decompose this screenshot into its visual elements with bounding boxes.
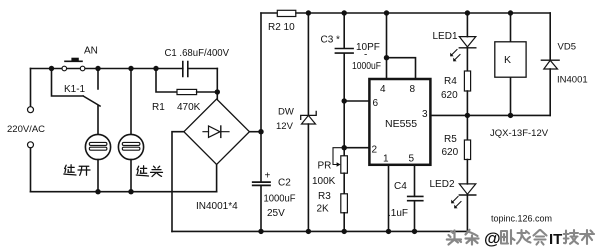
svg-text:DW: DW	[278, 107, 294, 118]
junction pin1 bottom	[386, 229, 391, 234]
glyph 会	[534, 230, 547, 245]
junction lamp2 bottom	[128, 189, 133, 194]
junction relay top	[508, 10, 513, 15]
relay K	[510, 13, 512, 115]
label 延开	[64, 165, 90, 176]
svg-text:C1 .68uF/400V: C1 .68uF/400V	[165, 48, 230, 59]
node AC terminal bottom	[28, 142, 34, 148]
wire bottom DC rail	[172, 230, 467, 232]
svg-text:R1: R1	[152, 102, 165, 113]
junction pin6	[342, 98, 347, 103]
junction C2 bottom	[258, 229, 263, 234]
junction pin3/R4	[465, 113, 470, 118]
wire AC2 branch to bridge left vertex	[172, 132, 184, 232]
arrows LED1	[451, 50, 460, 61]
wire neutral rail	[31, 191, 217, 193]
op IC NE555 U1	[369, 79, 430, 165]
glyph 条	[466, 230, 479, 245]
wire pin6	[344, 100, 369, 102]
wire left drop to AC terminal	[30, 69, 32, 107]
svg-text:1000uF: 1000uF	[352, 61, 381, 72]
junction pin2	[342, 145, 347, 150]
svg-text:JQX-13F-12V: JQX-13F-12V	[490, 128, 549, 139]
junction bridge + output	[258, 129, 263, 134]
wire left drop to bottom rail	[30, 148, 32, 192]
wiper arrow PR	[333, 148, 344, 165]
svg-text:-: -	[364, 50, 367, 61]
svg-text:C2: C2	[278, 178, 291, 189]
LED column x467	[466, 13, 468, 37]
wire bridge bottom vertex drop	[216, 165, 218, 192]
junction C3 top	[342, 10, 347, 15]
wire pin4	[386, 13, 388, 78]
svg-text:R5: R5	[444, 134, 457, 145]
wire top rail	[296, 12, 550, 14]
svg-text:.1uF: .1uF	[388, 208, 408, 219]
junction C1/R1 left	[153, 66, 158, 71]
lamp LAMP2 (延关)	[130, 69, 132, 135]
resistor R4	[464, 71, 470, 91]
watermark 头条@卧龙会IT技术	[447, 230, 479, 245]
svg-text:5: 5	[409, 154, 415, 165]
capacitor C3 column	[343, 13, 345, 156]
junction R1 right	[215, 89, 220, 94]
LED LED1	[459, 37, 476, 47]
wire VD5 column bottom	[549, 69, 551, 115]
svg-text:IN4001*4: IN4001*4	[196, 201, 238, 212]
LED LED2	[459, 184, 476, 194]
wire pin1	[388, 166, 390, 232]
svg-text:1: 1	[383, 154, 389, 165]
wire right column top	[549, 13, 551, 60]
svg-text:+: +	[265, 171, 271, 182]
svg-text:C4: C4	[394, 181, 407, 192]
svg-text:topinc.126.com: topinc.126.com	[491, 214, 552, 224]
svg-text:1000uF: 1000uF	[264, 194, 296, 205]
svg-text:10PF: 10PF	[356, 42, 380, 53]
svg-text:2: 2	[372, 145, 378, 156]
junction lamp2 top	[128, 66, 133, 71]
potentiometer PR	[341, 156, 348, 173]
svg-text:VD5: VD5	[558, 42, 576, 53]
junction K1-1 branch	[49, 66, 54, 71]
svg-text:IN4001: IN4001	[557, 75, 588, 86]
wire C1 right corner down	[216, 69, 218, 100]
svg-text:2K: 2K	[317, 204, 330, 215]
glyph 术	[580, 230, 594, 244]
junction DW top	[306, 10, 311, 15]
glyph 龙	[517, 230, 531, 244]
svg-text:220V/AC: 220V/AC	[7, 124, 45, 135]
svg-text:PR: PR	[318, 161, 332, 172]
svg-text:R4: R4	[444, 76, 457, 87]
capacitor C4	[408, 196, 423, 200]
svg-text:R3: R3	[318, 191, 331, 202]
node AC terminal top	[28, 107, 34, 113]
glyph 技	[564, 230, 578, 244]
svg-text:C3 *: C3 *	[321, 35, 341, 46]
junction pin4/pin8	[384, 55, 389, 60]
svg-text:3: 3	[422, 109, 428, 120]
svg-text:4: 4	[380, 84, 386, 95]
zener DW	[301, 111, 317, 119]
capacitor C1	[156, 68, 183, 70]
wire lamp1 to rail	[97, 160, 99, 192]
switch AN	[65, 60, 82, 62]
wire pin5	[414, 166, 416, 232]
resistor R3	[341, 194, 348, 213]
resistor R1	[156, 69, 177, 93]
capacitor C2	[253, 182, 270, 185]
junction LED1 top	[465, 10, 470, 15]
bridge rectifier IN4001*4	[184, 99, 250, 165]
svg-text:K: K	[504, 54, 511, 66]
wire main top-left	[31, 68, 157, 70]
wire pin8 jog	[387, 58, 416, 78]
svg-text:12V: 12V	[276, 121, 294, 132]
wire pin2	[344, 147, 369, 149]
svg-text:AN: AN	[84, 46, 98, 57]
svg-text:R2 10: R2 10	[268, 22, 295, 33]
wire bridge right vertex to C2 column	[249, 131, 261, 133]
svg-text:8: 8	[410, 84, 416, 95]
switch K1-1	[52, 69, 101, 135]
resistor R2	[261, 12, 277, 14]
junction lamp1 top	[95, 66, 100, 71]
svg-text:NE555: NE555	[385, 118, 417, 130]
wire pin3	[432, 114, 551, 116]
resistor R5	[464, 140, 470, 160]
lamp LAMP1 (延开)	[85, 134, 110, 159]
junction pin3/relay	[508, 113, 513, 118]
arrows LED2	[452, 197, 461, 208]
svg-text:6: 6	[373, 98, 379, 109]
junction lamp1 bottom	[95, 189, 100, 194]
svg-text:K1-1: K1-1	[64, 84, 86, 95]
wire lamp2 to rail	[130, 160, 132, 192]
glyph 头	[447, 231, 461, 245]
wire +DC column x261	[260, 13, 262, 231]
label 延关	[136, 166, 162, 177]
svg-text:25V: 25V	[267, 208, 285, 219]
svg-text:IT: IT	[549, 231, 562, 248]
svg-text:620: 620	[442, 147, 459, 158]
junction DW bottom	[306, 229, 311, 234]
junction pin5 bottom	[412, 229, 417, 234]
junction pin4 top	[384, 10, 389, 15]
diode VD5	[541, 59, 559, 61]
svg-text:620: 620	[441, 90, 458, 101]
svg-text:LED1: LED1	[433, 31, 458, 42]
glyph 卧	[501, 230, 515, 244]
svg-text:@: @	[484, 229, 501, 248]
junction R3 bottom	[342, 229, 347, 234]
zener DW column	[307, 13, 309, 231]
svg-text:470K: 470K	[177, 102, 201, 113]
svg-text:100K: 100K	[312, 176, 336, 187]
svg-text:LED2: LED2	[430, 179, 455, 190]
